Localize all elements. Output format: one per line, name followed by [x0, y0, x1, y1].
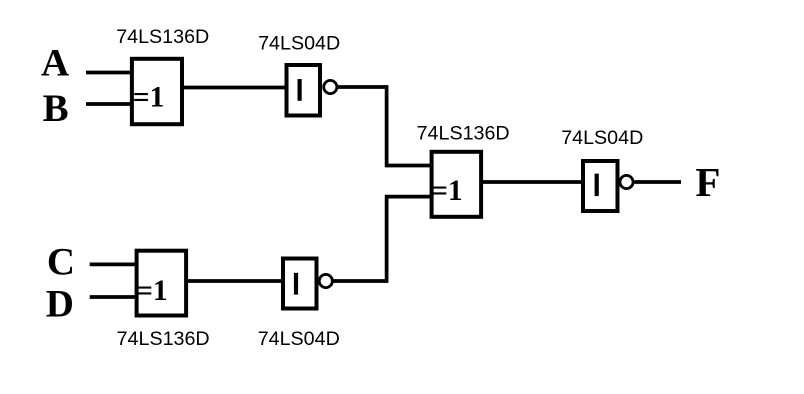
svg-text:=1: =1 — [136, 275, 168, 307]
wire D input — [90, 295, 137, 299]
wire B input — [86, 102, 132, 106]
label 74LS04D for U2 — [258, 32, 340, 54]
inverter U2 output bubble — [324, 80, 337, 93]
wire U2 output to U5 input pin 1 — [337, 87, 433, 166]
node F — [695, 159, 720, 205]
svg-text:74LS136D: 74LS136D — [417, 122, 510, 144]
XOR gate U1 label =1 — [133, 82, 165, 114]
label 74LS136D for U5 — [417, 122, 510, 144]
node B — [43, 87, 69, 130]
inverter U4 74LS04D body — [283, 259, 317, 309]
svg-text:B: B — [43, 87, 69, 130]
svg-text:A: A — [41, 42, 69, 85]
wire U1 output to U2 input — [182, 86, 286, 90]
svg-text:74LS136D: 74LS136D — [116, 26, 209, 48]
svg-text:74LS136D: 74LS136D — [117, 328, 210, 350]
svg-text:74LS04D: 74LS04D — [258, 32, 340, 54]
svg-text:74LS04D: 74LS04D — [561, 127, 643, 149]
svg-text:D: D — [46, 283, 74, 326]
svg-text:=1: =1 — [431, 175, 463, 207]
svg-text:F: F — [695, 159, 720, 205]
XOR gate U1 74LS136D body — [132, 59, 182, 124]
node A — [41, 42, 69, 85]
svg-text:C: C — [47, 241, 75, 284]
inverter U6 74LS04D body — [583, 161, 618, 211]
label 74LS04D for U6 — [561, 127, 643, 149]
wire U5 output to U6 input — [481, 180, 583, 184]
wire C input — [90, 263, 137, 267]
inverter U2 bar glyph — [298, 79, 302, 101]
node C — [47, 241, 75, 284]
wire U3 output to U4 input — [186, 279, 284, 283]
label 74LS136D for U3 — [117, 328, 210, 350]
svg-text:74LS04D: 74LS04D — [258, 328, 340, 350]
inverter U6 output bubble — [620, 175, 633, 188]
svg-text:=1: =1 — [133, 82, 165, 114]
node D — [46, 283, 74, 326]
wire U4 output to U5 input pin 2 — [333, 197, 433, 281]
inverter U4 output bubble — [319, 274, 332, 287]
inverter U4 bar glyph — [294, 273, 298, 295]
XOR gate U3 74LS136D body — [137, 251, 187, 316]
label 74LS04D for U4 — [258, 328, 340, 350]
XOR gate U3 label =1 — [136, 275, 168, 307]
XOR gate U5 74LS136D body — [432, 152, 482, 217]
label 74LS136D for U1 — [116, 26, 209, 48]
wire U6 output to F — [635, 180, 682, 184]
inverter U6 bar glyph — [595, 174, 599, 197]
wire A input — [86, 71, 132, 75]
inverter U2 74LS04D body — [287, 65, 321, 116]
XOR gate U5 label =1 — [431, 175, 463, 207]
